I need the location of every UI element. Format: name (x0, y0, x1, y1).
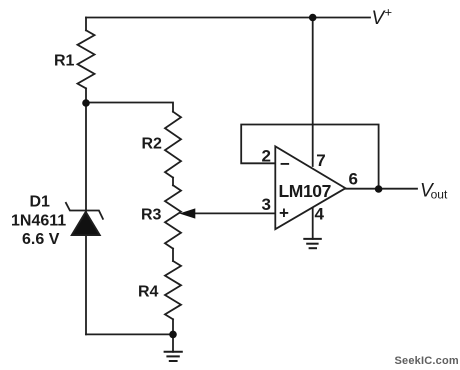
wire R3 to R4 (172, 249, 174, 261)
svg-text:R1: R1 (54, 53, 75, 70)
svg-text:R4: R4 (138, 284, 159, 301)
svg-text:LM107: LM107 (279, 181, 331, 201)
junction node A (R1/R2/D1) (82, 99, 90, 107)
svg-text:6.6 V: 6.6 V (22, 231, 60, 248)
svg-text:4: 4 (315, 205, 325, 224)
wire bottom rail (86, 333, 173, 335)
svg-text:D1: D1 (30, 194, 51, 211)
svg-text:SeekIC.com: SeekIC.com (395, 355, 459, 367)
svg-text:7: 7 (316, 151, 325, 170)
wire feedback loop output to pin 2 (241, 125, 378, 190)
junction node bottom ground (169, 331, 177, 339)
wire node A to R2 top (86, 103, 173, 112)
svg-text:R3: R3 (141, 207, 162, 224)
wire pin 4 to ground (312, 208, 314, 239)
junction node output (375, 185, 383, 193)
resistor R2 (165, 112, 181, 178)
wire R4 bottom to ground node (172, 319, 174, 334)
ground symbol at pin 4 (303, 239, 322, 248)
wire node A down through zener branch (85, 103, 87, 334)
ground symbol at R4 node (164, 352, 183, 361)
svg-text:2: 2 (262, 147, 271, 166)
svg-text:out: out (431, 188, 448, 202)
svg-text:3: 3 (262, 195, 271, 214)
svg-text:1N4611: 1N4611 (11, 213, 66, 230)
resistor R4 (165, 261, 181, 319)
resistor R1 (78, 30, 95, 88)
wire R1 bottom to node A (85, 88, 87, 103)
svg-text:−: − (280, 155, 290, 174)
wire V+ top rail (86, 17, 370, 19)
wire wiper arm R3 to pin 3 (187, 212, 275, 214)
svg-text:+: + (385, 5, 393, 20)
wire ground stub (172, 334, 174, 351)
wiper arrowhead on R3 (179, 208, 195, 218)
wire pin 7 supply (312, 18, 314, 167)
svg-text:R2: R2 (142, 136, 163, 153)
resistor R3 (potentiometer) (165, 185, 181, 248)
wire R1 top lead (85, 18, 87, 31)
junction node on V+ rail (309, 14, 317, 22)
svg-text:6: 6 (349, 170, 358, 189)
zener diode D1 body (66, 202, 104, 235)
op-amp U1 LM107 triangle (275, 146, 345, 229)
wire R2 to R3 (172, 178, 174, 186)
svg-text:+: + (279, 204, 289, 223)
wire output pin 6 to Vout (346, 188, 418, 190)
